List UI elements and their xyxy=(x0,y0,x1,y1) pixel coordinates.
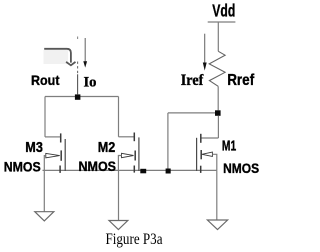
M3 source down wire xyxy=(43,170,45,211)
transistor M2 xyxy=(118,133,138,221)
M1 drain contact bar xyxy=(200,134,202,143)
Vdd supply bar xyxy=(208,21,236,23)
M3 drain contact bar xyxy=(60,133,62,142)
svg-text:NMOS: NMOS xyxy=(4,159,41,175)
highlight artifact box under Rout hook xyxy=(44,50,69,64)
M1 drain lead xyxy=(201,137,218,139)
transistor M3 xyxy=(44,133,65,211)
M1 gate line xyxy=(196,138,198,171)
node X junction dot xyxy=(215,110,221,116)
svg-text:Vdd: Vdd xyxy=(212,1,235,21)
M2 body lead xyxy=(118,156,121,171)
output node junction dot xyxy=(75,94,81,99)
M2 drain contact bar xyxy=(133,133,135,142)
M1 source contact bar xyxy=(200,166,202,173)
resistor Rref xyxy=(209,51,225,86)
svg-text:Iref: Iref xyxy=(181,72,204,89)
wire resistor to node X xyxy=(217,86,219,110)
M1 gate contact bar xyxy=(200,150,202,159)
M2 body arrow xyxy=(122,153,134,157)
wire drop to M3 drain xyxy=(44,97,46,137)
M2 drain lead xyxy=(119,136,134,138)
wire Vdd to resistor xyxy=(217,22,219,51)
junction dot on rail (Iref branch) xyxy=(166,169,171,174)
svg-text:Rout: Rout xyxy=(31,72,60,88)
M1 source down wire xyxy=(216,170,218,220)
M3 body lead xyxy=(44,156,46,171)
junction dot on rail (M2 gate) xyxy=(140,169,146,174)
output node top rail xyxy=(45,96,119,98)
svg-text:Rref: Rref xyxy=(227,72,255,89)
M3 gate contact bar xyxy=(60,150,62,160)
ground under M1 xyxy=(207,220,227,230)
ground under M2 xyxy=(109,221,128,230)
M2 gate contact bar xyxy=(134,151,136,161)
svg-text:Io: Io xyxy=(84,75,97,91)
M2 source down wire xyxy=(118,170,120,220)
svg-text:M3: M3 xyxy=(25,139,43,156)
M3 gate line xyxy=(64,139,66,171)
Rout hook arrow xyxy=(44,49,75,66)
wire drop to M2 drain xyxy=(118,97,120,137)
Io arrow xyxy=(84,38,86,62)
Iref arrow xyxy=(204,34,206,63)
transistor M1 xyxy=(197,134,219,220)
wire node X left xyxy=(168,112,215,114)
M2 gate line xyxy=(138,137,140,171)
M3 drain lead xyxy=(45,136,60,138)
Io dashed line xyxy=(77,37,79,40)
M3 body arrow xyxy=(46,153,60,157)
wire node X down to M1 drain xyxy=(217,116,219,138)
M2 source contact bar xyxy=(133,166,135,173)
ground under M3 xyxy=(35,212,54,221)
M3 source contact bar xyxy=(59,166,61,173)
M1 body lead xyxy=(212,154,216,170)
svg-text:NMOS: NMOS xyxy=(223,160,259,176)
svg-text:NMOS: NMOS xyxy=(79,158,117,174)
M1 body arrow xyxy=(202,152,213,156)
wire down to gate rail xyxy=(167,113,169,169)
svg-text:M1: M1 xyxy=(222,138,236,155)
svg-text:M2: M2 xyxy=(98,139,116,156)
gate rail xyxy=(43,169,217,171)
svg-text:Figure P3a: Figure P3a xyxy=(106,231,163,248)
